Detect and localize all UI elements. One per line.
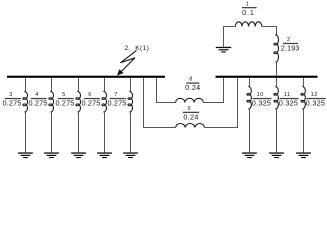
svg-text:5: 5 [62, 92, 66, 98]
wire branch 6 upper (bus 1 to reactor 6) [104, 78, 106, 92]
wire branch 12 upper (bus 2 to reactor 12) [303, 78, 305, 87]
wire branch 5 upper (bus 1 to reactor 5) [78, 78, 80, 92]
svg-text:0.275: 0.275 [55, 99, 74, 108]
label 3/0.275 fraction bar [5, 98, 21, 99]
wire branch 12 lower (reactor 12 to ground) [303, 109, 305, 153]
wire reactor 1 to corner above reactor 2 [262, 27, 277, 35]
svg-text:3: 3 [9, 92, 13, 98]
svg-text:0.325: 0.325 [252, 99, 272, 108]
svg-text:1: 1 [246, 1, 250, 7]
ground (branch 12) [296, 152, 311, 158]
label 9/0.24 fraction bar [183, 112, 199, 113]
ground (branch 11) [269, 152, 284, 158]
reactor 12 coil [301, 86, 305, 109]
wire branch 8 right rise (to bus 2) [203, 78, 223, 103]
wire branch 6 lower (reactor 6 to ground) [104, 112, 106, 153]
reactor 2 coil (vertical) [274, 35, 279, 63]
bus 2 (right busbar) [216, 76, 318, 78]
svg-text:11: 11 [284, 92, 291, 98]
svg-text:12: 12 [311, 92, 318, 98]
wire branch 8 left drop (from bus 1) [157, 78, 176, 103]
svg-text:0.275: 0.275 [28, 99, 47, 108]
wire branch 7 lower (reactor 7 to ground) [130, 112, 132, 153]
wire branch 4 upper (bus 1 to reactor 4) [51, 78, 53, 92]
svg-text:0.1: 0.1 [242, 8, 255, 17]
reactor 9 coil [176, 123, 205, 127]
ground (branch 10) [242, 152, 257, 158]
label 8/0.24 fraction bar [186, 82, 199, 83]
ground (branch 7) [123, 152, 138, 158]
reactor 4 coil [49, 91, 54, 112]
reactor 1 coil (horizontal) [235, 22, 261, 27]
wire ground riser to corner [224, 27, 236, 47]
wire branch 5 lower (reactor 5 to ground) [78, 112, 80, 153]
wire branch 11 lower (reactor 11 to ground) [276, 109, 278, 153]
svg-text:0.325: 0.325 [279, 99, 299, 108]
fault arrowhead [117, 69, 124, 75]
label 6/0.275 fraction bar [84, 98, 100, 99]
reactor 5 coil [76, 91, 81, 112]
label 1/0.1 fraction bar [242, 7, 257, 8]
svg-text:2. K(1): 2. K(1) [125, 45, 150, 52]
reactor 8 coil [176, 98, 204, 102]
svg-text:0.24: 0.24 [183, 113, 198, 122]
wire branch 3 lower (reactor 3 to ground) [25, 112, 27, 153]
label 4/0.275 fraction bar [31, 98, 47, 99]
ground (branch 6) [97, 152, 112, 158]
wire branch 9 right rise (to bus 2) [205, 78, 238, 128]
wire reactor 2 to bus 2 [276, 62, 278, 76]
reactor 11 coil [274, 86, 278, 109]
wire branch 10 lower (reactor 10 to ground) [249, 109, 251, 153]
reactor 7 coil [128, 91, 133, 112]
label 5/0.275 fraction bar [58, 98, 74, 99]
reactor 10 coil [247, 86, 251, 109]
svg-text:8: 8 [189, 77, 193, 83]
svg-text:2.193: 2.193 [281, 44, 300, 53]
wire branch 4 lower (reactor 4 to ground) [51, 112, 53, 153]
wire branch 3 upper (bus 1 to reactor 3) [25, 78, 27, 92]
svg-text:0.275: 0.275 [2, 99, 21, 108]
ground (branch 3) [18, 152, 33, 158]
svg-text:4: 4 [35, 92, 39, 98]
ground (branch 4) [44, 152, 59, 158]
reactor 3 coil [23, 91, 28, 112]
svg-text:0.275: 0.275 [107, 99, 126, 108]
svg-text:6: 6 [88, 92, 92, 98]
label 12/0.325 fraction bar [307, 98, 326, 99]
ground (branch 5) [71, 152, 86, 158]
reactor 6 coil [102, 91, 107, 112]
wire branch 9 left drop (from bus 1) [144, 78, 176, 128]
label 10/0.325 fraction bar [253, 98, 272, 99]
svg-text:0.24: 0.24 [185, 83, 200, 92]
wire branch 11 upper (bus 2 to reactor 11) [276, 78, 278, 87]
wire branch 10 upper (bus 2 to reactor 10) [249, 78, 251, 87]
label 11/0.325 fraction bar [280, 98, 299, 99]
label 7/0.275 fraction bar [110, 98, 126, 99]
svg-text:7: 7 [114, 92, 118, 98]
bus 1 (left busbar) [7, 76, 165, 78]
svg-text:2: 2 [287, 37, 291, 43]
ground (source, top) [216, 47, 231, 53]
svg-text:9: 9 [187, 106, 191, 112]
svg-text:10: 10 [257, 92, 264, 98]
label 2/2.193 fraction bar [283, 43, 298, 44]
fault lightning bolt arrow K(1) [119, 51, 136, 74]
wire branch 7 upper (bus 1 to reactor 7) [130, 78, 132, 92]
svg-text:0.275: 0.275 [81, 99, 100, 108]
svg-text:0.325: 0.325 [306, 99, 326, 108]
